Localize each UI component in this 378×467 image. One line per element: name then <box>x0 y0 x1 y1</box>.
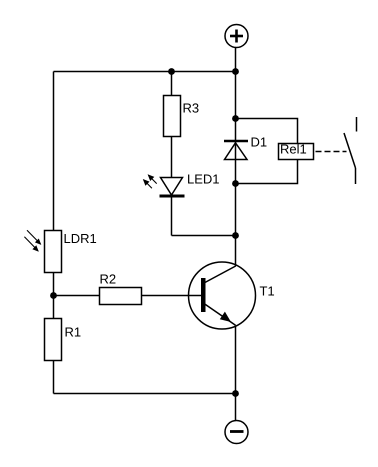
label R1 <box>66 328 81 337</box>
wire LED1 down <box>171 198 173 236</box>
LDR1 photoresistor body <box>45 231 62 273</box>
transistor T1 base bar <box>201 278 206 312</box>
node junction LED branch <box>232 232 239 239</box>
node junction base divider <box>50 292 57 299</box>
wire bottom horizontal rail <box>54 393 236 395</box>
wire LED branch to right rail <box>172 235 236 237</box>
terminal + (positive supply) <box>225 25 248 48</box>
switch contact bottom terminal <box>355 168 357 184</box>
node junction top right rail <box>232 68 239 75</box>
label R3 <box>184 103 199 112</box>
resistor R3 body <box>164 96 181 137</box>
wire R2 to transistor base <box>142 295 204 297</box>
resistor R1 body <box>45 319 62 361</box>
label LED1 <box>188 175 219 184</box>
diode D1 triangle <box>225 143 248 160</box>
LDR1 light arrows <box>24 230 41 252</box>
wire R3 to LED1 <box>171 137 173 178</box>
node junction top R3 branch <box>168 68 175 75</box>
wire emitter down to bottom rail <box>235 325 237 393</box>
wire top horizontal rail <box>54 71 236 73</box>
wire left rail between LDR1 and R1 <box>53 273 55 319</box>
wire relay bottom branch <box>236 160 298 184</box>
node junction relay top branch <box>232 115 239 122</box>
LED1 diode triangle <box>161 178 183 196</box>
label T1 <box>260 287 274 296</box>
wire relay top branch <box>236 119 298 144</box>
label Rel1 <box>281 144 306 154</box>
node junction relay bottom branch <box>232 180 239 187</box>
wire R3 branch from top rail <box>171 72 173 96</box>
wire to - terminal <box>235 394 237 421</box>
transistor T1 emitter stroke <box>204 304 236 326</box>
label R2 <box>101 274 116 283</box>
LED1 emission arrows <box>143 174 157 188</box>
wire left rail lower <box>53 361 55 394</box>
transistor T1 collector stroke <box>204 266 236 283</box>
resistor R2 body <box>100 288 142 305</box>
terminal - (negative supply) <box>225 421 248 444</box>
switch contact top terminal <box>356 117 358 132</box>
transistor T1 circle <box>189 262 256 329</box>
label LDR1 <box>65 234 97 243</box>
wire base branch from divider node <box>54 295 100 297</box>
switch lever <box>344 133 356 168</box>
transistor T1 emitter arrowhead <box>220 312 231 322</box>
diode D1 cathode bar <box>224 140 248 143</box>
LED1 cathode bar <box>160 195 185 198</box>
relay Rel1 coil body <box>279 144 314 160</box>
wire dashed mechanical link to switch <box>316 151 347 153</box>
label D1 <box>252 138 267 147</box>
wire right rail from + terminal down to collector <box>235 48 237 267</box>
wire left rail upper <box>53 72 55 231</box>
node junction bottom <box>232 390 239 397</box>
